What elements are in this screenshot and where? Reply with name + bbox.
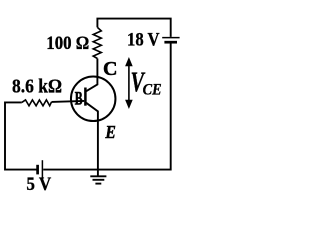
battery V2 18V short plate	[164, 41, 177, 44]
wire base lead	[52, 101, 85, 102]
label VCE	[131, 68, 162, 99]
transistor Q1 base bar	[84, 88, 87, 106]
resistor R1 100 ohm	[93, 27, 101, 58]
wire collector lead	[86, 59, 97, 92]
resistor R2 8.6 kohm	[22, 100, 52, 106]
wire top	[97, 19, 170, 37]
svg-text:5 V: 5 V	[26, 174, 51, 195]
svg-text:E: E	[105, 122, 116, 142]
wire left	[5, 102, 37, 169]
svg-text:CE: CE	[143, 79, 162, 98]
battery V1 5V long plate	[41, 160, 43, 179]
svg-text:18 V: 18 V	[127, 29, 160, 50]
battery V2 18V long plate	[162, 37, 179, 39]
battery V1 5V short plate	[36, 165, 39, 175]
VCE arrow	[125, 57, 133, 109]
wire bottom	[43, 169, 98, 171]
wire emitter lead	[86, 103, 98, 170]
ground	[90, 170, 106, 184]
transistor Q1 circle	[71, 77, 116, 122]
svg-text:B: B	[75, 89, 83, 110]
svg-text:C: C	[103, 58, 118, 80]
svg-text:8.6 kΩ: 8.6 kΩ	[12, 76, 62, 97]
wire right	[98, 43, 171, 170]
svg-text:100 Ω: 100 Ω	[46, 33, 89, 54]
